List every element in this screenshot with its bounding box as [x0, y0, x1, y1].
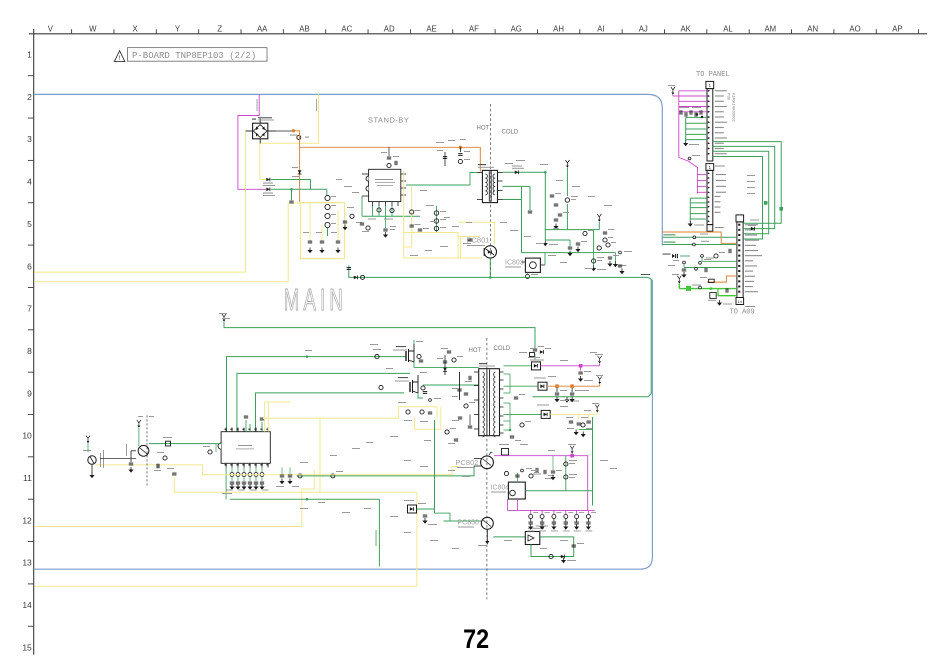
- rectifier D831 + 24V rail (orange): [504, 375, 604, 402]
- misc labels standby: [336, 139, 612, 269]
- svg-text:W: W: [89, 24, 97, 33]
- P31 pin labels: [715, 174, 727, 213]
- IC850 standby regulator: [362, 169, 406, 206]
- wire TV AC3.3V (green): [663, 234, 737, 239]
- svg-text:Z: Z: [217, 24, 222, 33]
- wire relay control (orange): [663, 232, 737, 243]
- misc part cluster: T802 right pins: [504, 374, 532, 441]
- snubber R/C above T801: [437, 147, 470, 166]
- wire burst line (yellow): [95, 465, 243, 475]
- svg-text:15: 15: [22, 642, 32, 652]
- photocoupler PC802 (transistor side): [100, 415, 221, 486]
- svg-text:V: V: [48, 24, 54, 33]
- current sense cluster (yellow box): [398, 398, 441, 429]
- decoupling cluster C84x: [679, 107, 703, 118]
- transformer T802: [474, 363, 504, 437]
- connector P33 (TO A09): [736, 215, 744, 305]
- hot return path (yellow): [404, 222, 495, 258]
- svg-text:5: 5: [27, 219, 32, 229]
- wire LVDS supply (magenta bus): [668, 85, 707, 194]
- wire standby rail to PC850: [434, 420, 436, 513]
- rectifier D832 + A15V rail (magenta): [504, 354, 604, 382]
- wire timer (bright green): [672, 274, 737, 306]
- svg-text:14: 14: [738, 299, 743, 304]
- svg-text:MAIN: MAIN: [284, 283, 347, 317]
- P30 pin labels: [715, 90, 727, 154]
- regulator IC804: [491, 473, 526, 510]
- svg-text:P-BOARD TNP8EP103 (2/2): P-BOARD TNP8EP103 (2/2): [132, 51, 256, 61]
- driver Q850 cluster: [404, 500, 481, 525]
- thermistor TH801 10ohm: [297, 136, 301, 140]
- misc labels main: [222, 318, 617, 549]
- svg-text:72: 72: [463, 625, 489, 655]
- misc P30 right column details: [715, 166, 755, 229]
- isolation boundary (upper): [490, 104, 492, 279]
- svg-text:AI: AI: [597, 24, 604, 33]
- svg-text:AK: AK: [680, 24, 691, 33]
- svg-text:TO A09: TO A09: [730, 309, 755, 317]
- wire gate drive 1 (green): [227, 349, 407, 432]
- transformer T801: [477, 164, 503, 203]
- svg-text:11: 11: [23, 473, 32, 483]
- wire panel sense lines (green): [713, 142, 783, 239]
- svg-text:HOT: HOT: [477, 126, 490, 132]
- svg-text:COLD: COLD: [502, 130, 519, 136]
- svg-text:AO: AO: [849, 24, 860, 33]
- svg-text:AB: AB: [299, 24, 309, 33]
- svg-text:X: X: [132, 24, 138, 33]
- node B+ (orange dot): [292, 129, 295, 132]
- wire AC live (magenta): [238, 94, 266, 189]
- misc part cluster: T802 left: [441, 348, 475, 444]
- photocoupler PC801: [467, 236, 497, 259]
- svg-text:Y: Y: [175, 24, 181, 33]
- svg-text:AN: AN: [807, 24, 818, 33]
- wire standby sense (green): [701, 255, 737, 262]
- svg-text:AH: AH: [553, 24, 564, 33]
- connector P30 (TO PANEL): [706, 81, 714, 161]
- wire VREF (yellow): [34, 402, 417, 586]
- svg-text:K1RA14A00002: K1RA14A00002: [732, 93, 737, 122]
- P31 ground ladder: [688, 198, 707, 227]
- wire feedback (green): [230, 498, 380, 566]
- wire AC neutral (yellow): [260, 94, 319, 179]
- svg-text:!: !: [119, 55, 121, 62]
- svg-text:13: 13: [22, 558, 32, 568]
- svg-text:9: 9: [27, 388, 32, 398]
- wire PC801 emitter: [489, 258, 491, 277]
- wire power-fail (orange): [700, 276, 737, 283]
- wire IC804 sense (green): [525, 490, 592, 492]
- board outline: [34, 94, 663, 245]
- svg-text:P30: P30: [727, 93, 732, 101]
- divider R861/R862: [591, 246, 632, 271]
- connector P31: [706, 164, 714, 232]
- IC820 bottom RC network: [222, 468, 269, 500]
- svg-text:AC: AC: [341, 24, 352, 33]
- standby secondary rectifier D851: [503, 166, 546, 253]
- divider R871/R872: [564, 456, 577, 491]
- svg-text:AD: AD: [384, 24, 395, 33]
- svg-text:IC803: IC803: [505, 260, 524, 267]
- relay driver D850: [493, 526, 584, 564]
- thermistor cluster: [663, 254, 737, 278]
- diode D803: [298, 170, 302, 174]
- wire AC return (yellow): [34, 203, 301, 282]
- diode D804 row: [265, 188, 267, 190]
- wire bridge output: [276, 130, 292, 132]
- svg-text:10: 10: [22, 431, 32, 441]
- title box P-BOARD TNP8EP103 (2/2): [128, 48, 268, 62]
- svg-text:3: 3: [27, 134, 32, 144]
- svg-text:AF: AF: [469, 24, 479, 33]
- svg-text:AL: AL: [723, 24, 733, 33]
- P30 ground ladder: [683, 117, 707, 146]
- svg-text:AM: AM: [764, 24, 776, 33]
- svg-text:AP: AP: [892, 24, 902, 33]
- feedback divider R85x: [434, 206, 446, 232]
- svg-text:TO PANEL: TO PANEL: [696, 71, 730, 79]
- standby 5V rail: [522, 160, 602, 253]
- misc part cluster: standby secondary caps: [550, 193, 625, 274]
- bridge rectifier D801: [245, 117, 276, 143]
- svg-text:12: 12: [22, 515, 32, 525]
- svg-text:AA: AA: [257, 24, 268, 33]
- svg-text:2: 2: [27, 92, 32, 102]
- bleeder resistors R85x: [528, 510, 596, 531]
- VCC loop (yellow): [404, 171, 479, 258]
- wire bridge minus (yellow): [34, 131, 245, 272]
- standby post-filter network: [545, 229, 626, 267]
- MOSFET Q831: [393, 340, 479, 367]
- photocoupler PC850: [458, 517, 494, 546]
- SOS line components: [699, 286, 755, 307]
- svg-text:COLD: COLD: [494, 346, 511, 352]
- photocoupler PC802: [456, 452, 494, 469]
- rectifier D833 + 17V rail (yellow): [504, 403, 600, 437]
- wire PFC output (green): [219, 313, 535, 348]
- wire standby detect (green): [297, 466, 474, 478]
- MOSFET Q832: [395, 372, 479, 398]
- misc connector-left details: [668, 249, 731, 272]
- IC850 source network: [362, 196, 420, 220]
- wire 3.3V feed (green): [592, 417, 594, 506]
- wire PC802 LED feed (yellow): [243, 467, 458, 475]
- misc part cluster: IC850 periphery: [342, 207, 396, 238]
- svg-text:4: 4: [27, 177, 32, 187]
- IC820 top pin stubs: [244, 416, 264, 432]
- snubber block (yellow box): [301, 203, 345, 259]
- svg-text:14: 14: [22, 600, 32, 610]
- svg-text:AE: AE: [426, 24, 436, 33]
- misc part cluster: under IC820 detail: [157, 444, 299, 487]
- svg-text:PC850: PC850: [458, 520, 480, 527]
- wire gate drive 2 (green): [237, 373, 410, 431]
- warning triangle: [114, 51, 125, 62]
- control IC820: [218, 428, 270, 468]
- transistor Q820: [83, 436, 104, 479]
- svg-text:6: 6: [27, 261, 32, 271]
- cap C861: [535, 468, 537, 472]
- svg-text:AG: AG: [511, 24, 522, 33]
- svg-text:STAND-BY: STAND-BY: [368, 116, 409, 125]
- misc part cluster: standby primary snubber: [381, 147, 399, 167]
- diode D802 row: [260, 179, 266, 181]
- P33 pin labels: [745, 224, 762, 292]
- svg-text:HOT: HOT: [469, 348, 482, 354]
- line filter L801 chain: [325, 189, 336, 236]
- resonant caps C83x: [437, 355, 468, 400]
- svg-text:8: 8: [27, 346, 32, 356]
- wire cold ground rail: [347, 265, 652, 402]
- wire A5V loop (magenta): [494, 444, 595, 510]
- misc part cluster: near PC802: [521, 456, 562, 481]
- isolation boundary (lower): [486, 338, 488, 599]
- wire source sense (green): [256, 393, 405, 432]
- svg-text:AJ: AJ: [639, 24, 648, 33]
- svg-text:1: 1: [27, 50, 32, 60]
- wire B+ rail (orange): [293, 131, 299, 148]
- svg-text:IC804: IC804: [491, 485, 510, 492]
- wire T801 primary to drain: [406, 173, 477, 186]
- svg-text:7: 7: [27, 304, 32, 314]
- startup cap C808: [418, 228, 422, 230]
- shunt regulator IC803: [505, 253, 545, 279]
- damper diode cluster at PFC node: [530, 346, 552, 360]
- wire TV AC5.5V (green): [663, 241, 737, 246]
